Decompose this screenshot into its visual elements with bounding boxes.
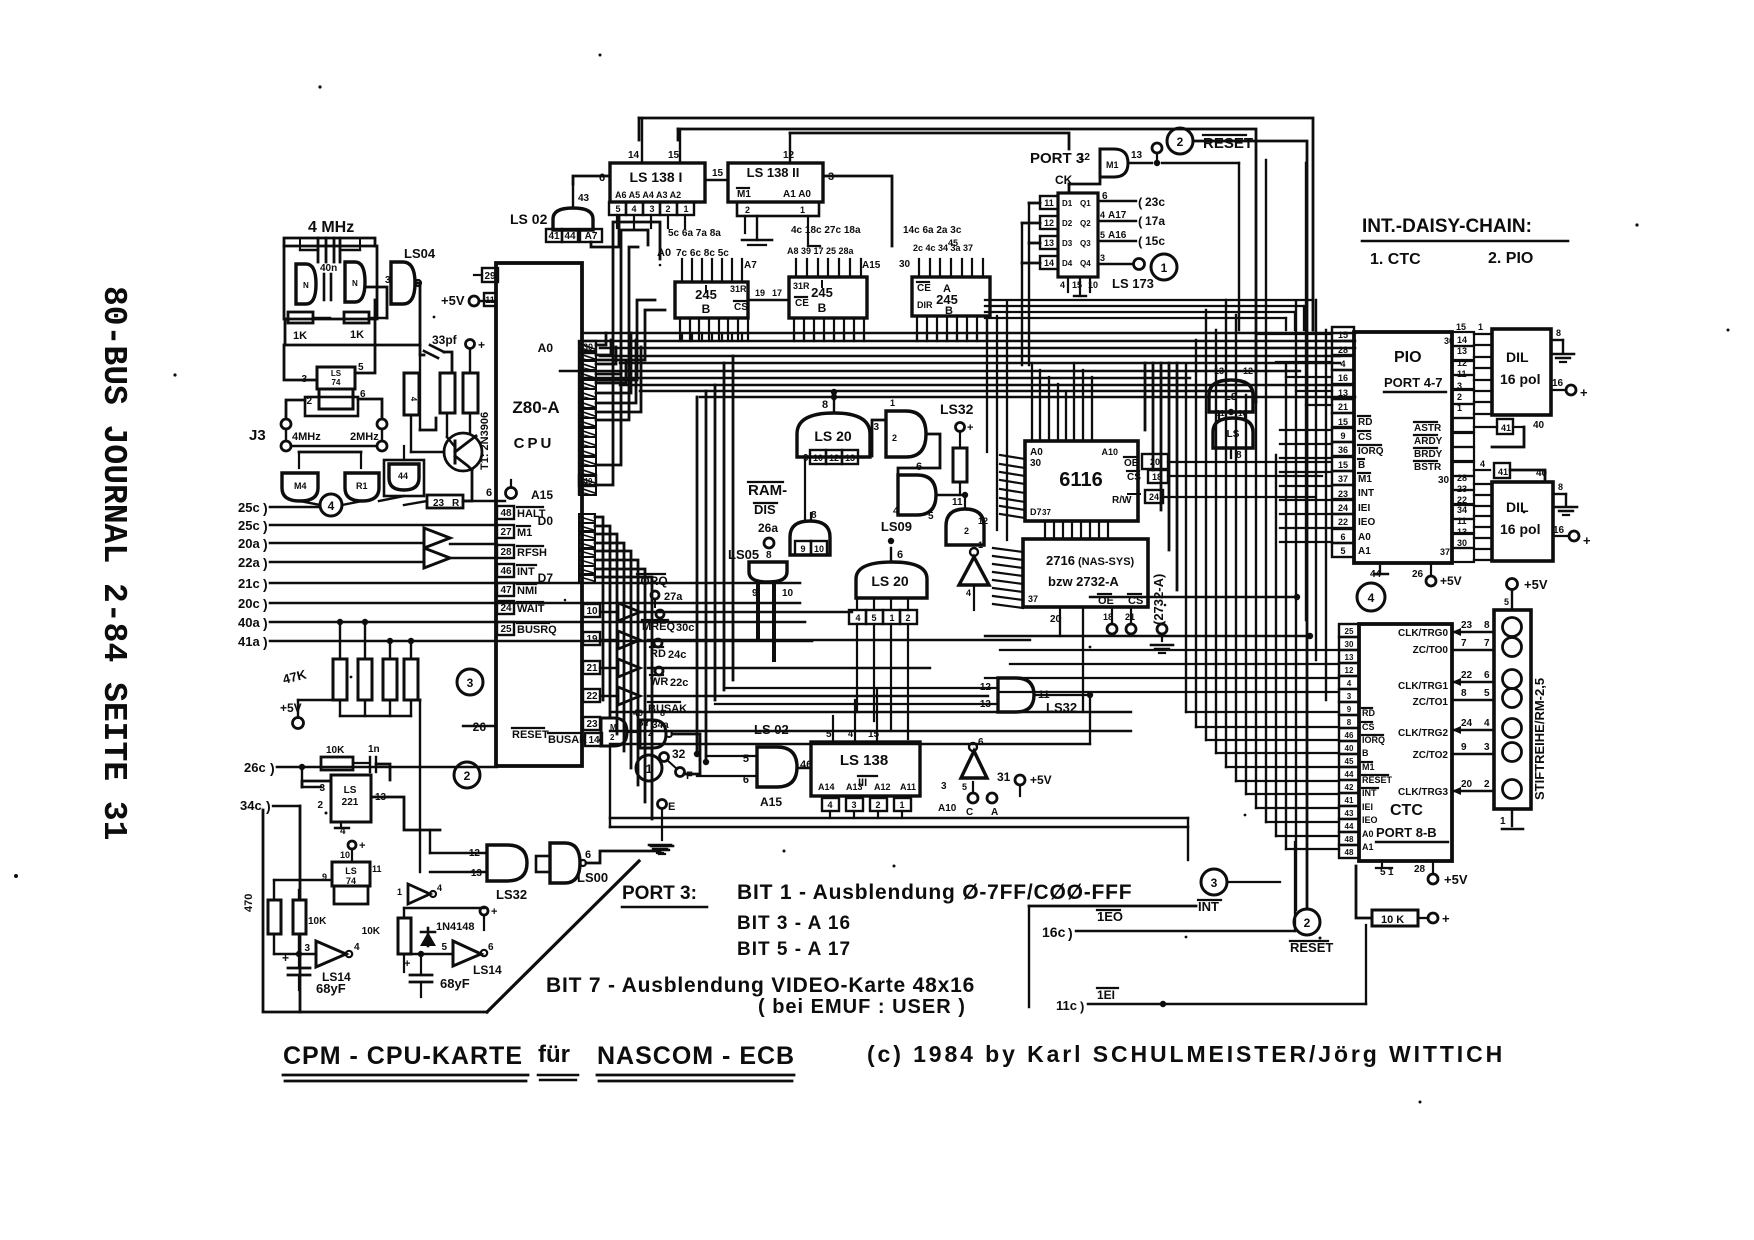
- svg-text:13: 13: [1457, 527, 1467, 537]
- transistor T1 2N3906: [444, 412, 491, 471]
- svg-text:10: 10: [586, 606, 598, 617]
- svg-text:B: B: [1362, 748, 1369, 758]
- gate U2a: [296, 264, 316, 304]
- svg-text:CS: CS: [1358, 432, 1372, 443]
- gate U23 LS00 a: [1209, 366, 1253, 412]
- svg-text:INT: INT: [1198, 899, 1219, 914]
- svg-text:R1: R1: [356, 481, 368, 491]
- svg-text:28: 28: [500, 547, 512, 558]
- svg-text:1: 1: [1478, 322, 1483, 332]
- svg-text:INT: INT: [1362, 788, 1377, 798]
- svg-text:14: 14: [628, 150, 640, 161]
- pins U6 bottom: [917, 316, 987, 341]
- svg-text:CS: CS: [1127, 472, 1141, 483]
- svg-text:CS: CS: [734, 302, 748, 313]
- svg-text:BUSRQ: BUSRQ: [517, 624, 557, 636]
- svg-text:12: 12: [1243, 366, 1253, 376]
- svg-text:DIL: DIL: [1506, 499, 1529, 515]
- svg-text:1EO: 1EO: [1097, 909, 1123, 924]
- svg-text:8: 8: [1558, 482, 1563, 492]
- svg-text:29: 29: [484, 271, 496, 282]
- label RD 24c: [650, 639, 686, 661]
- svg-text:13: 13: [1044, 238, 1054, 248]
- svg-text:LS: LS: [1225, 392, 1238, 403]
- svg-text:16: 16: [1338, 373, 1348, 383]
- terminal +5V pullups: [280, 700, 411, 729]
- svg-text:23: 23: [433, 498, 445, 509]
- note BIT 5: [737, 939, 851, 960]
- svg-text:D2: D2: [1062, 219, 1073, 228]
- gate U13 LS09: [881, 482, 988, 545]
- svg-text:+5V: +5V: [441, 293, 465, 308]
- ic U26 CTC: [1359, 624, 1452, 861]
- svg-text:+5V: +5V: [1524, 577, 1548, 592]
- svg-text:221: 221: [342, 797, 359, 808]
- gate G1: [282, 473, 318, 501]
- cpu Z80-A U1: [496, 263, 582, 766]
- ref circle 3 left: [457, 669, 483, 695]
- svg-text:74: 74: [332, 378, 341, 387]
- svg-text:LS: LS: [1227, 429, 1240, 440]
- svg-text:BIT 1 - Ausblendung Ø-7FF/CØØ-: BIT 1 - Ausblendung Ø-7FF/CØØ-FFF: [737, 881, 1132, 904]
- svg-text:10: 10: [782, 588, 794, 599]
- svg-text:12: 12: [1079, 152, 1091, 163]
- wire top rail 1: [639, 118, 1313, 330]
- wire 26c branch: [302, 767, 321, 787]
- wire rows vertical taps: [337, 619, 414, 659]
- pins CTC left: [1339, 624, 1359, 858]
- bus band risers left: [596, 333, 641, 412]
- svg-text:15c: 15c: [1145, 234, 1165, 248]
- svg-text:11: 11: [1044, 198, 1054, 208]
- wire 2716 pin20 drop: [1060, 607, 1083, 712]
- svg-text:Q1: Q1: [1080, 199, 1091, 208]
- pins 6116 left hatch: [1000, 455, 1025, 518]
- gate U16 LS05: [728, 547, 794, 660]
- wire crystal top: [284, 238, 375, 250]
- terminal plus c: [480, 906, 497, 930]
- svg-text:DIS: DIS: [754, 502, 776, 517]
- svg-text:11: 11: [1457, 516, 1467, 526]
- svg-text:ZC/TO2: ZC/TO2: [1413, 750, 1449, 761]
- svg-text:3: 3: [319, 783, 325, 794]
- svg-text:11: 11: [1457, 369, 1467, 379]
- svg-text:ZC/TO1: ZC/TO1: [1413, 697, 1449, 708]
- svg-text:bzw 2732-A: bzw 2732-A: [1048, 574, 1119, 589]
- svg-text:LS32: LS32: [496, 887, 527, 902]
- svg-text:10: 10: [814, 544, 824, 554]
- svg-text:5: 5: [962, 782, 967, 792]
- svg-text:2: 2: [905, 613, 910, 623]
- svg-text:A0: A0: [1362, 829, 1374, 839]
- svg-text:37: 37: [1042, 508, 1051, 517]
- svg-text:CS: CS: [1362, 722, 1375, 732]
- svg-text:10K: 10K: [362, 926, 381, 937]
- oscillator feedback box: [284, 246, 377, 319]
- wire jumper net: [662, 734, 700, 799]
- svg-text:6: 6: [585, 849, 591, 861]
- label WR 22c: [650, 667, 688, 689]
- svg-text:40a: 40a: [238, 615, 260, 630]
- svg-text:BIT 5 - A 17: BIT 5 - A 17: [737, 939, 851, 960]
- svg-text:1: 1: [1161, 261, 1168, 275]
- svg-text:BIT 7 - Ausblendung VIDEO-Kart: BIT 7 - Ausblendung VIDEO-Karte 48x16: [546, 974, 975, 997]
- svg-text:): ): [263, 518, 268, 534]
- resistor R5: [953, 448, 967, 482]
- wire right vertical band: [1186, 160, 1326, 910]
- svg-text:4: 4: [1368, 591, 1375, 605]
- svg-text:46: 46: [1345, 731, 1354, 740]
- svg-text:+: +: [491, 906, 497, 918]
- svg-text:4: 4: [893, 506, 899, 517]
- resistor 1K a: [288, 312, 313, 342]
- svg-text:A0: A0: [538, 341, 554, 355]
- svg-text:CPM - CPU-KARTE: CPM - CPU-KARTE: [283, 1042, 523, 1070]
- svg-text:2: 2: [1177, 135, 1184, 149]
- svg-text:40: 40: [1533, 420, 1545, 431]
- svg-text:+: +: [967, 422, 973, 434]
- svg-text:4: 4: [1060, 280, 1065, 290]
- svg-text:Q3: Q3: [1080, 239, 1091, 248]
- svg-text:WAIT: WAIT: [517, 603, 545, 615]
- svg-text:PORT 3:: PORT 3:: [622, 883, 697, 904]
- svg-text:CLK/TRG3: CLK/TRG3: [1398, 787, 1448, 798]
- wire 6116 2716 link verticals: [1045, 521, 1108, 539]
- svg-text:4 MHz: 4 MHz: [308, 219, 354, 236]
- svg-text:42: 42: [1345, 783, 1354, 792]
- svg-text:2: 2: [1484, 779, 1490, 790]
- svg-text:1: 1: [889, 613, 894, 623]
- svg-text:J3: J3: [249, 427, 266, 444]
- svg-text:80-BUS JOURNAL 2-84 SEITE 31: 80-BUS JOURNAL 2-84 SEITE 31: [95, 286, 132, 841]
- schmitt LS14 b: [441, 941, 502, 977]
- svg-text:5c 6a 7a 8a: 5c 6a 7a 8a: [668, 228, 721, 239]
- svg-text:2716: 2716: [1046, 553, 1075, 568]
- svg-text:): ): [263, 576, 268, 592]
- wire oscillator bottom: [285, 283, 420, 345]
- svg-text:20: 20: [1150, 457, 1160, 467]
- svg-text:LS 138 II: LS 138 II: [747, 165, 800, 180]
- svg-text:LS 173: LS 173: [1112, 276, 1154, 291]
- svg-text:LS14: LS14: [473, 963, 502, 977]
- svg-text:2: 2: [317, 800, 323, 811]
- svg-text:RFSH: RFSH: [517, 547, 547, 559]
- svg-text:23: 23: [1461, 620, 1473, 631]
- svg-text:3: 3: [873, 422, 879, 433]
- svg-text:BIT 3 - A 16: BIT 3 - A 16: [737, 913, 851, 934]
- svg-text:3: 3: [1211, 876, 1218, 890]
- svg-text:30: 30: [1438, 475, 1450, 486]
- wire PIO to DIL2: [1457, 473, 1492, 560]
- svg-text:1K: 1K: [293, 330, 307, 342]
- svg-text:44: 44: [398, 471, 408, 481]
- svg-text:6116: 6116: [1059, 469, 1102, 491]
- svg-text:13: 13: [1338, 388, 1348, 398]
- svg-text:A0: A0: [1030, 447, 1043, 458]
- svg-text:3: 3: [851, 800, 856, 810]
- svg-text:30: 30: [1457, 538, 1467, 548]
- svg-text:5: 5: [1340, 546, 1345, 556]
- svg-text:9: 9: [1347, 705, 1352, 714]
- ground DIL2: [1553, 482, 1577, 515]
- svg-text:5: 5: [871, 613, 876, 623]
- cpu control pins left: [497, 506, 557, 636]
- svg-text:2c 4c 34 3a 37: 2c 4c 34 3a 37: [913, 243, 973, 253]
- svg-text:4: 4: [827, 800, 832, 810]
- svg-text:1n: 1n: [368, 744, 380, 755]
- resistor 23R: [427, 495, 463, 509]
- jumper J3: [249, 399, 387, 451]
- svg-text:+: +: [1580, 385, 1588, 400]
- svg-text:3: 3: [467, 676, 474, 690]
- svg-text:DIR: DIR: [917, 300, 933, 310]
- capacitor 33pf: [420, 333, 458, 373]
- svg-text:A1: A1: [1362, 842, 1374, 852]
- wire mid verticals: [697, 356, 733, 762]
- svg-text:7: 7: [1461, 638, 1467, 649]
- svg-text:A11: A11: [900, 782, 916, 792]
- svg-text:BUSAK: BUSAK: [548, 734, 587, 746]
- svg-text:D1: D1: [1062, 199, 1073, 208]
- svg-text:): ): [263, 555, 268, 571]
- svg-text:1: 1: [800, 205, 805, 215]
- svg-text:LS: LS: [344, 785, 357, 796]
- svg-text:68yF: 68yF: [316, 981, 346, 996]
- svg-text:INT: INT: [1358, 488, 1374, 499]
- svg-text:A1: A1: [1358, 546, 1371, 557]
- flip-flop U3 LS74: [301, 362, 366, 416]
- node 20c: [238, 596, 800, 612]
- wire 245 interlink: [748, 288, 789, 300]
- svg-text:44: 44: [564, 231, 576, 242]
- svg-text:11: 11: [485, 295, 495, 305]
- svg-text:): ): [1080, 999, 1084, 1014]
- svg-text:28: 28: [1338, 345, 1348, 355]
- svg-text:41a: 41a: [238, 634, 260, 649]
- svg-text:T1: 2N3906: T1: 2N3906: [479, 412, 491, 470]
- svg-text:+5V: +5V: [1444, 872, 1468, 887]
- title CPM-CPU-KARTE: [283, 1041, 795, 1081]
- svg-text:3: 3: [1347, 692, 1352, 701]
- wire LS00 out: [586, 845, 671, 863]
- svg-text:10K: 10K: [308, 916, 327, 927]
- svg-text:13: 13: [471, 868, 483, 879]
- svg-text:12: 12: [1345, 666, 1354, 675]
- resistor 10K: [321, 745, 368, 770]
- svg-text:16: 16: [1552, 378, 1564, 389]
- wire U11-U12: [872, 420, 940, 483]
- svg-text:A15: A15: [531, 488, 553, 502]
- capacitor 68uF a: [282, 951, 346, 996]
- svg-text:CE: CE: [795, 298, 809, 309]
- svg-text:1: 1: [978, 540, 983, 550]
- wire LS00 pair: [1219, 412, 1245, 418]
- ref circle 1 right: [1151, 254, 1177, 280]
- svg-text:A7: A7: [585, 231, 598, 242]
- svg-text:A0: A0: [1358, 532, 1371, 543]
- gate U24 LS00 b: [1213, 409, 1253, 461]
- svg-text:41: 41: [1498, 467, 1508, 477]
- svg-text:8: 8: [1461, 688, 1467, 699]
- buffer drivers MREQ RD WR BUSAK: [600, 603, 640, 705]
- connector DIL2: [1492, 482, 1553, 561]
- svg-text:IORQ: IORQ: [1358, 446, 1384, 457]
- resistor 1K b: [344, 312, 369, 341]
- wire staircase to PIO: [1256, 334, 1332, 542]
- svg-text:RESET: RESET: [1290, 940, 1333, 955]
- svg-text:28: 28: [1457, 473, 1467, 483]
- svg-text:(NAS-SYS): (NAS-SYS): [1078, 556, 1135, 568]
- svg-text:ASTR: ASTR: [1414, 423, 1442, 434]
- svg-text:3: 3: [941, 781, 947, 792]
- svg-text:): ): [263, 500, 268, 516]
- svg-text:40: 40: [1345, 744, 1354, 753]
- svg-text:M4: M4: [294, 481, 307, 491]
- svg-text:M1: M1: [737, 189, 751, 200]
- terminal plus b: [348, 840, 365, 862]
- svg-text:28: 28: [1414, 864, 1426, 875]
- ic U25 PIO: [1354, 332, 1452, 563]
- svg-text:2: 2: [745, 205, 750, 215]
- wire transistor: [411, 355, 472, 501]
- gate G3: [384, 460, 424, 496]
- connector J2 stiftreihe: [1494, 610, 1531, 809]
- node 34c: [240, 798, 300, 900]
- cpu data pins: [538, 514, 595, 585]
- svg-text:2. PIO: 2. PIO: [1488, 250, 1533, 267]
- gate U22 LS32 d: [980, 678, 1077, 715]
- svg-text:MREQ: MREQ: [642, 621, 675, 633]
- wire gates row: [299, 446, 427, 505]
- copyright line: [867, 1041, 1505, 1067]
- wire buffer outputs: [640, 612, 1030, 696]
- svg-text:30: 30: [899, 259, 911, 270]
- wire LS173 inputs: [1022, 203, 1040, 365]
- svg-text:44: 44: [1345, 770, 1354, 779]
- wire 41c IEI: [1056, 931, 1366, 1014]
- svg-text:RESET: RESET: [512, 729, 549, 741]
- svg-text:LS 138 I: LS 138 I: [630, 169, 683, 185]
- label A15 b: [760, 789, 811, 809]
- svg-text:5: 5: [826, 729, 832, 740]
- gate busak a: [601, 718, 627, 746]
- svg-text:19: 19: [755, 288, 765, 298]
- svg-text:LS: LS: [345, 866, 357, 876]
- svg-text:3: 3: [1457, 381, 1462, 391]
- svg-text:PIO: PIO: [1394, 349, 1422, 366]
- svg-text:5: 5: [615, 204, 620, 214]
- svg-text:12: 12: [1044, 218, 1054, 228]
- svg-text:LS00: LS00: [577, 870, 608, 885]
- ground stiftreihe: [1500, 809, 1523, 829]
- ref circle 4: [320, 494, 342, 516]
- svg-text:36: 36: [1338, 445, 1348, 455]
- svg-text:22: 22: [1457, 495, 1467, 505]
- svg-text:C: C: [966, 807, 973, 818]
- inverter U14 up: [959, 540, 989, 610]
- svg-text:15: 15: [1338, 330, 1348, 340]
- bus band risers mid: [682, 333, 987, 341]
- svg-text:41: 41: [548, 231, 560, 242]
- svg-text:25c: 25c: [238, 518, 260, 533]
- svg-text:(2732-A): (2732-A): [1151, 574, 1166, 625]
- svg-text:11: 11: [372, 864, 382, 874]
- svg-text:47: 47: [500, 585, 512, 596]
- svg-text:14: 14: [1044, 258, 1054, 268]
- label IORQ 27a: [637, 574, 683, 607]
- svg-text:34: 34: [1457, 505, 1467, 515]
- wire LS138III bottom pins: [830, 811, 902, 818]
- svg-text:34c: 34c: [240, 798, 262, 813]
- svg-text:ZC/TO0: ZC/TO0: [1413, 645, 1449, 656]
- pins U4 bottom: [680, 318, 748, 341]
- svg-text:1: 1: [683, 204, 688, 214]
- svg-text:LS05: LS05: [728, 547, 759, 562]
- svg-text:A8 39 17 25 28a: A8 39 17 25 28a: [787, 246, 855, 256]
- svg-text:M1: M1: [517, 527, 532, 539]
- svg-text:23: 23: [1457, 484, 1467, 494]
- svg-text:45: 45: [948, 238, 958, 248]
- svg-text:PORT 8-B: PORT 8-B: [1376, 825, 1437, 840]
- svg-text:BRDY: BRDY: [1414, 449, 1443, 460]
- svg-text:16c: 16c: [1042, 924, 1066, 940]
- cpu reset pin: [463, 720, 587, 746]
- svg-text:13: 13: [1345, 653, 1354, 662]
- ground DIL1: [1551, 328, 1574, 362]
- svg-text:2: 2: [464, 769, 471, 783]
- svg-text:5: 5: [358, 362, 364, 373]
- svg-text:13: 13: [845, 453, 855, 463]
- svg-text:INT: INT: [517, 566, 535, 578]
- svg-text:IEO: IEO: [1362, 815, 1378, 825]
- svg-text:13: 13: [1457, 346, 1467, 356]
- gate U12 or: [893, 461, 936, 522]
- svg-text:25c: 25c: [238, 500, 260, 515]
- svg-text:A10: A10: [1101, 447, 1118, 457]
- wire top feeds right: [985, 300, 1313, 330]
- svg-text:5: 5: [441, 942, 447, 953]
- wires CTC to stiftreihe: [1452, 620, 1494, 795]
- resistor R2: [404, 373, 419, 415]
- inverter U21 up: [961, 737, 987, 792]
- capacitor 40n: [320, 263, 337, 300]
- svg-text:15: 15: [668, 150, 680, 161]
- ref circle 3: [1198, 836, 1280, 914]
- svg-text:4: 4: [409, 397, 418, 402]
- svg-text:DIL: DIL: [1506, 349, 1529, 365]
- ic LS138 II: [728, 133, 834, 216]
- svg-text:HALT: HALT: [517, 508, 546, 520]
- svg-text:für: für: [538, 1041, 570, 1068]
- svg-text:26: 26: [1412, 569, 1424, 580]
- ic U7 LS173: [1040, 191, 1108, 277]
- svg-text:D4: D4: [1062, 259, 1073, 268]
- svg-text:5: 5: [743, 753, 749, 765]
- ref circle 2 top: [1167, 128, 1193, 154]
- svg-text:2: 2: [964, 526, 969, 536]
- ref circle 4 right: [1297, 583, 1385, 611]
- svg-text:LS 02: LS 02: [754, 722, 789, 737]
- svg-text:6: 6: [978, 737, 984, 748]
- labels PIO right sigs: [1414, 422, 1450, 486]
- svg-text:22c: 22c: [670, 677, 688, 689]
- svg-text:A6 A5 A4 A3 A2: A6 A5 A4 A3 A2: [615, 190, 681, 200]
- svg-text:33pf: 33pf: [432, 333, 458, 347]
- svg-text:10 K: 10 K: [1381, 914, 1404, 926]
- svg-text:3: 3: [1100, 253, 1105, 263]
- wire PIO to DIL1: [1456, 322, 1492, 414]
- svg-text:6: 6: [1484, 670, 1490, 681]
